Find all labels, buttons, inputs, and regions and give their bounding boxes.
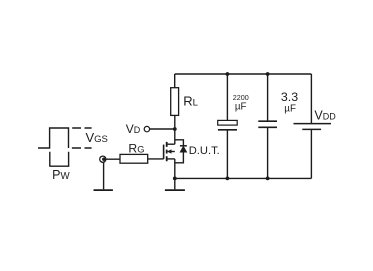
source wire (MOSFET to ground) xyxy=(174,159,176,189)
svg-text:PW: PW xyxy=(52,168,70,182)
capacitor C1 wire bottom xyxy=(226,130,228,179)
wire VD to drain xyxy=(150,128,175,130)
wire RG to gate xyxy=(148,158,164,160)
transistor D.U.T. channel segments xyxy=(166,142,168,161)
wire top rail xyxy=(175,73,312,75)
junction dot VD/drain xyxy=(173,127,177,131)
svg-text:µF: µF xyxy=(284,104,296,115)
pulse waveform VGS xyxy=(38,128,69,148)
body diode branch wires xyxy=(175,140,184,163)
svg-text:RL: RL xyxy=(183,94,198,109)
capacitor C2 3.3uF plates xyxy=(258,121,277,127)
wire terminal to RG xyxy=(104,158,120,160)
svg-text:3.3: 3.3 xyxy=(281,90,298,104)
transistor D.U.T. drain lead xyxy=(167,143,175,145)
body diode triangle xyxy=(180,146,187,152)
ground (pulse source) xyxy=(94,189,113,191)
capacitor C2 wire bottom xyxy=(267,127,269,178)
capacitor C2 wire top xyxy=(267,74,269,121)
transistor D.U.T. gate bar xyxy=(163,145,165,159)
resistor RL xyxy=(171,88,179,116)
junction dot C2 top xyxy=(266,72,270,76)
svg-text:µF: µF xyxy=(235,102,247,113)
svg-text:VGS: VGS xyxy=(86,130,108,145)
battery VDD long plate xyxy=(294,123,332,125)
svg-text:RG: RG xyxy=(128,142,144,156)
body diode cathode bar xyxy=(180,145,187,147)
svg-text:VD: VD xyxy=(126,122,141,136)
battery VDD wire top xyxy=(310,74,312,124)
VGS low-level dashed line xyxy=(72,147,92,149)
resistor RG xyxy=(120,154,148,163)
drain wire (RL to MOSFET) xyxy=(174,115,176,144)
wire top rail to RL xyxy=(174,74,176,88)
junction dot at terminal xyxy=(102,158,105,161)
terminal node (pulse output) xyxy=(100,156,106,162)
VGS high-level dashed line xyxy=(72,127,91,129)
node VD terminal circle xyxy=(144,126,149,131)
svg-text:D.U.T.: D.U.T. xyxy=(189,145,220,157)
junction dot C1 bottom xyxy=(226,177,230,181)
wire bottom rail xyxy=(175,177,312,179)
ground (source) xyxy=(165,189,185,191)
transistor D.U.T. source lead xyxy=(167,158,175,160)
battery VDD wire bottom xyxy=(310,129,312,178)
Pw measurement bracket xyxy=(50,152,69,166)
transistor D.U.T. body lead xyxy=(170,151,175,153)
junction dot C1 top xyxy=(226,72,230,76)
junction dot source/bottom rail xyxy=(173,177,177,181)
transistor D.U.T. body arrow xyxy=(167,149,172,153)
wire terminal to ground xyxy=(103,159,105,189)
svg-text:VDD: VDD xyxy=(314,108,336,122)
capacitor C1 2200uF bottom plate xyxy=(218,129,237,131)
capacitor C1 wire top xyxy=(226,74,228,120)
junction dot C2 bottom xyxy=(266,177,270,181)
capacitor C1 2200uF top plate xyxy=(218,120,238,125)
battery VDD short plate xyxy=(302,128,321,130)
